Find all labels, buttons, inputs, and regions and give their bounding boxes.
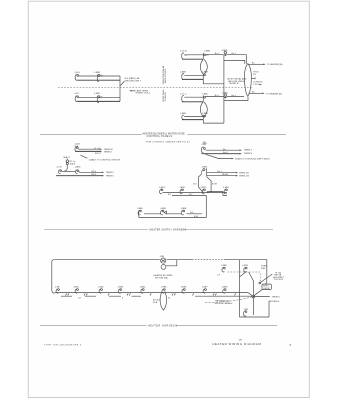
- wire term3: [80, 171, 115, 174]
- wire low row1: [144, 212, 202, 214]
- svg-text:B3.4: B3.4: [92, 171, 97, 173]
- svg-text:TERM 4 B: TERM 4 B: [239, 175, 250, 177]
- svg-text:TERM 4: TERM 4: [271, 301, 280, 303]
- svg-text:Bu 1: Bu 1: [232, 95, 237, 97]
- wire bus riser: [223, 55, 225, 123]
- svg-text:TYPE 75H CBC/EUROPE 4: TYPE 75H CBC/EUROPE 4: [44, 344, 82, 346]
- svg-text:FOR CONTROL CABLES SEE PG 42: FOR CONTROL CABLES SEE PG 42: [146, 141, 190, 144]
- connector J-8-H: [74, 72, 80, 80]
- svg-text:SCHED CLR-4: SCHED CLR-4: [136, 93, 151, 95]
- svg-text:DETAIL A: DETAIL A: [229, 82, 239, 85]
- row connector 5: [140, 287, 146, 294]
- connector J-8B9 mid: [242, 265, 248, 272]
- svg-text:4A 30 HOSE 4: 4A 30 HOSE 4: [164, 68, 167, 83]
- connector row label 3: [200, 187, 206, 194]
- svg-text:1-30 N: 1-30 N: [253, 84, 260, 86]
- wire loom feed upper: [203, 79, 224, 83]
- wire term4 heavy: [75, 151, 112, 155]
- wire loop out1: [207, 171, 250, 174]
- svg-text:GROUND TAP 7: GROUND TAP 7: [125, 80, 142, 83]
- wire conn3 lower feed: [224, 60, 245, 64]
- connector row wire: [55, 293, 270, 297]
- svg-text:B.3H: B.3H: [212, 183, 217, 185]
- svg-text:J-8B8: J-8B8: [180, 113, 186, 115]
- wire lower segments: [61, 295, 253, 297]
- wire row corner: [207, 192, 223, 196]
- svg-text:Bu 1: Bu 1: [215, 53, 220, 55]
- connector J-17-B: [180, 51, 188, 60]
- svg-text:ORDR: ORDR: [263, 288, 270, 290]
- svg-text:BLACK TO GROUND (LEFT SIDE): BLACK TO GROUND (LEFT SIDE): [235, 158, 269, 161]
- svg-text:Bu 1: Bu 1: [215, 95, 220, 97]
- svg-text:J-8B3: J-8B3: [222, 50, 228, 52]
- svg-text:30A 4: 30A 4: [70, 163, 76, 166]
- svg-text:J-17-B: J-17-B: [180, 51, 187, 53]
- connector row label 1: [159, 187, 165, 194]
- svg-text:J-8B3: J-8B3: [117, 287, 123, 289]
- connector J-8B8: [180, 71, 186, 79]
- wire low row2: [139, 212, 199, 218]
- connector row label 2: [179, 187, 185, 194]
- wire lower-left pair: [77, 97, 120, 101]
- harness funnel: [240, 271, 270, 317]
- svg-text:TERM 3: TERM 3: [106, 172, 115, 174]
- wire conn3 to loom: [227, 53, 247, 64]
- svg-text:TERM 4: TERM 4: [244, 150, 253, 152]
- callout lake term: [129, 89, 151, 94]
- svg-text:J-17-C: J-17-C: [180, 93, 187, 95]
- connector J-8B8 mid: [217, 265, 227, 276]
- svg-text:J-8B4: J-8B4: [223, 187, 229, 189]
- svg-text:J-88B: J-88B: [94, 93, 100, 95]
- connector J-8B8 lower: [180, 113, 186, 119]
- harness loop hexagon: [198, 174, 211, 193]
- svg-text:30 4A 30: 30 4A 30: [164, 92, 167, 101]
- svg-text:4B.4A: 4B.4A: [222, 173, 228, 176]
- net marker column: [162, 65, 167, 102]
- svg-text:J-8B: J-8B: [55, 287, 60, 289]
- loop connector: [202, 168, 207, 176]
- main bus top: [52, 260, 267, 317]
- svg-text:TO HEATER (A): TO HEATER (A): [267, 63, 283, 66]
- connector low 1: [137, 208, 143, 215]
- loop labels: [193, 183, 217, 185]
- svg-text:TO HEATER (B): TO HEATER (B): [266, 92, 282, 95]
- svg-text:J-8B1: J-8B1: [159, 187, 165, 189]
- plug callout: [259, 272, 285, 284]
- row connector 8: [202, 287, 208, 294]
- label J-8B3: [202, 166, 208, 168]
- row connector 6 splice: [161, 287, 167, 294]
- wire left riser: [119, 76, 121, 101]
- connector J-8BD: [75, 166, 81, 173]
- connector low 3: [180, 208, 186, 215]
- svg-text:J-8B8: J-8B8: [221, 265, 227, 267]
- svg-text:J-8B2: J-8B2: [179, 187, 185, 189]
- svg-text:Bu 1: Bu 1: [232, 53, 237, 55]
- wire conn1-conn2: [184, 54, 203, 56]
- blower motor symbol: [154, 256, 177, 279]
- svg-text:1M: 1M: [239, 339, 242, 341]
- svg-text:J-8B8: J-8B8: [222, 287, 228, 289]
- svg-text:J-8B9: J-8B9: [202, 113, 208, 115]
- wire output term4: [269, 301, 280, 303]
- connector J-8-J: [74, 93, 79, 101]
- footer fig number: [239, 339, 242, 341]
- caption heater supply: [44, 229, 273, 232]
- svg-text:J-8B: J-8B: [201, 144, 206, 146]
- svg-text:J-8-J: J-8-J: [74, 93, 79, 95]
- footer page number: [290, 344, 292, 347]
- wire drop vertical: [139, 195, 207, 217]
- callout cable note: [81, 155, 121, 161]
- harness loop lower: [200, 102, 207, 117]
- svg-text:J-8B3: J-8B3: [202, 166, 208, 168]
- connector J-8-B: [75, 147, 78, 151]
- svg-text:30A: 30A: [261, 267, 265, 270]
- svg-text:HEATER SUPPLY HARNESS: HEATER SUPPLY HARNESS: [150, 229, 187, 232]
- row connector 9: [222, 287, 228, 294]
- connector J-8B3 upper: [222, 50, 228, 56]
- harness loop upper: [200, 60, 207, 75]
- caption heater harness: [40, 324, 277, 327]
- connector J-88B: [94, 93, 104, 103]
- svg-text:J-8B8: J-8B8: [137, 208, 143, 210]
- term 30a note: [261, 266, 267, 271]
- connector J-17-C: [180, 93, 187, 101]
- svg-text:J-8B4: J-8B4: [140, 287, 146, 289]
- wire output bottom: [249, 92, 282, 96]
- inline connector: [64, 159, 76, 172]
- connector J-8BB: [203, 51, 210, 60]
- ground curve: [205, 297, 252, 303]
- wire mid pair upper: [182, 75, 203, 79]
- wire loom feed lower: [203, 97, 248, 123]
- row connector 1: [55, 287, 60, 294]
- callout electrical tap: [121, 77, 142, 85]
- wire row main: [163, 192, 228, 196]
- harness loom lens: [244, 64, 251, 97]
- row connector 2: [73, 287, 79, 294]
- loom label TP30: [253, 72, 259, 76]
- wire upper-left pair: [77, 76, 120, 80]
- svg-text:J-8B5: J-8B5: [161, 287, 167, 289]
- svg-text:CABLE TO CONTROL SWITCH: CABLE TO CONTROL SWITCH: [89, 159, 121, 162]
- note electrical vacuum: [227, 77, 247, 85]
- svg-text:J-8B: J-8B: [160, 256, 165, 258]
- wire output term3: [272, 296, 281, 298]
- svg-text:J-8B9: J-8B9: [242, 265, 248, 267]
- svg-text:MOTOR 30A: MOTOR 30A: [155, 276, 168, 279]
- svg-text:J-8BB: J-8BB: [180, 208, 186, 210]
- svg-text:B3.21: B3.21: [95, 153, 101, 155]
- row connector 4: [117, 287, 123, 294]
- wire mid pair lower: [182, 117, 203, 120]
- svg-text:J-8BC: J-8BC: [202, 93, 208, 95]
- wire heavy upper: [182, 58, 203, 60]
- wire term30: [78, 148, 113, 151]
- svg-text:TERM 3: TERM 3: [272, 296, 281, 298]
- label stack: [63, 156, 71, 159]
- svg-text:L.P: L.P: [217, 274, 221, 276]
- hanging loom: [153, 292, 167, 311]
- wire output top: [249, 63, 283, 66]
- junction X: [252, 295, 255, 298]
- footer type line: [44, 344, 82, 346]
- svg-text:J-8B: J-8B: [243, 309, 248, 311]
- wire ground run: [206, 154, 270, 160]
- note box: [262, 284, 271, 290]
- connector J-8-B label: [75, 144, 81, 148]
- svg-text:J-8B1: J-8B1: [73, 287, 79, 289]
- svg-text:TERM 4: TERM 4: [104, 151, 113, 153]
- wire term5 heavy: [56, 174, 114, 177]
- svg-text:Bu 1: Bu 1: [217, 171, 222, 173]
- svg-text:J-8B7: J-8B7: [200, 187, 206, 189]
- connector low 2: [160, 208, 167, 215]
- svg-text:J-8BD: J-8BD: [75, 166, 81, 168]
- svg-text:J-8BB: J-8BB: [94, 72, 100, 74]
- row connector 7: [181, 287, 187, 294]
- connector J-8BC: [202, 93, 208, 102]
- dashed centerline: [58, 87, 252, 89]
- connector J-8B9: [202, 71, 208, 79]
- svg-text:J-8B9: J-8B9: [160, 208, 166, 210]
- svg-text:J-8BB: J-8BB: [204, 51, 210, 53]
- wire conn2-conn3: [206, 53, 224, 55]
- svg-text:J-8-H: J-8-H: [74, 72, 80, 74]
- svg-text:B. 41: B. 41: [95, 148, 101, 150]
- wire code marks: [66, 293, 236, 299]
- connector J-8B bottom: [243, 309, 248, 316]
- svg-text:J-8B7: J-8B7: [202, 287, 208, 289]
- connector row label 4: [223, 187, 229, 194]
- connector J-8B top right: [201, 144, 206, 152]
- svg-text:B3.6: B3.6: [92, 174, 97, 176]
- dashed link: [228, 272, 261, 284]
- wire heavy lower: [182, 101, 203, 103]
- wire fan2 heavy: [201, 152, 252, 155]
- svg-text:J-8B3: J-8B3: [222, 92, 228, 94]
- svg-text:J-8B8: J-8B8: [180, 71, 186, 73]
- svg-text:J-8B9: J-8B9: [202, 71, 208, 73]
- svg-text:HEATER WIRING DIAGRAM: HEATER WIRING DIAGRAM: [212, 342, 261, 346]
- svg-text:30 A: 30 A: [153, 301, 158, 304]
- row connector 3: [98, 287, 104, 294]
- svg-text:CONTROL PANELS: CONTROL PANELS: [147, 135, 173, 138]
- svg-text:HEATER HARNESS: HEATER HARNESS: [148, 324, 177, 327]
- svg-text:GROUND AREA 4: GROUND AREA 4: [215, 302, 234, 305]
- connector J-8B3 lower: [222, 92, 228, 98]
- connector J-8BB left: [94, 72, 104, 82]
- note parts ground: [215, 299, 234, 305]
- connector J-7-B: [56, 166, 62, 173]
- svg-text:TERM 5: TERM 5: [106, 176, 115, 178]
- caption heater blower: [40, 132, 286, 138]
- subtitle note: [146, 141, 207, 144]
- svg-text:Bu.4: Bu.4: [223, 152, 228, 154]
- loom tick: [252, 77, 255, 79]
- wire fan1: [206, 149, 253, 152]
- connector J-8B9 lower: [202, 113, 208, 120]
- svg-text:TERM B: TERM B: [244, 153, 253, 155]
- loom label conn30: [253, 82, 263, 87]
- svg-text:TERM 4 A: TERM 4 A: [239, 171, 250, 174]
- svg-text:TOP BOX: TOP BOX: [274, 279, 284, 281]
- wire lower row: [184, 95, 244, 97]
- svg-text:J-8B2: J-8B2: [98, 287, 104, 289]
- wire loop out2: [207, 173, 250, 177]
- footer title: [212, 342, 261, 346]
- svg-text:B.41: B.41: [194, 216, 199, 218]
- link to note box: [254, 289, 262, 295]
- svg-text:J-7-B: J-7-B: [56, 166, 62, 168]
- svg-text:J-8B6: J-8B6: [181, 287, 187, 289]
- wire conn-conn: [62, 170, 76, 172]
